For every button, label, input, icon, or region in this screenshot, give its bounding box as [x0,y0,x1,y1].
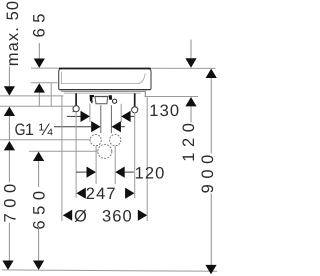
dim 700: line below text [8,223,10,261]
wire: left extension line at flange bottom (max.50 lower ref) [0,95,64,97]
drain fitting: flange trapezoid [95,97,108,104]
wire: right extension line at lower step (130 bottom ref) [145,96,199,98]
washbasin bottom edge [60,89,151,91]
washbasin right edge [148,69,151,90]
dim fitting-width: right tail [131,115,135,117]
hook right: eye circle [132,107,138,113]
wire: floor line [2,270,217,271]
svg-text:120: 120 [135,165,166,183]
dim 900: up arrowhead at rim line [206,69,217,78]
svg-text:6 5: 6 5 [31,13,49,37]
dim 700: up arrowhead at faucet line [4,141,15,150]
hook left: eye circle [73,106,79,112]
washbasin mounting flange line 2 [64,92,141,94]
dim 900: down arrowhead at floor [205,265,216,274]
svg-text:247: 247 [86,185,117,203]
dim 650: down arrowhead at floor [33,261,44,270]
extension line from basin right down [146,97,148,222]
dim 120 vertical: line below arrow [190,106,192,122]
dim max.50: line below text [8,67,10,87]
wire: left extension line at hook level [0,105,73,107]
faucet hole circle right (dashed) [110,135,121,146]
dim 650: line below text [38,227,40,261]
hook left: rod [75,93,77,106]
dim 120 (hole spacing): left tail [76,171,86,173]
dim max.50: down arrowhead [4,86,15,95]
drain fitting: left clip [90,95,94,101]
extension line from right faucet hole [114,146,116,184]
dim diameter 360: right arrowhead [138,210,147,221]
drain hole circle (dashed) [98,144,112,158]
dim 65: line below text [38,43,40,59]
dim 120: left arrowhead [87,166,96,177]
extension line from right hook down [134,113,136,198]
dim diameter 360: left arrowhead [63,210,72,221]
dim pipe: right tail [121,126,125,128]
dim 65: up arrowhead [34,83,45,92]
dim 650: line above text [38,161,40,187]
svg-text:9 0 0: 9 0 0 [199,154,217,193]
svg-text:1 2 0: 1 2 0 [180,123,198,162]
wire: top reference line (basin rim level) [31,67,216,69]
svg-text:6 5 0: 6 5 0 [31,190,49,229]
dim 700: line above text [8,150,10,182]
dim 700: down arrowhead at floor [2,261,13,270]
dim 130: top tail [190,40,192,59]
hook left: tail [73,111,74,112]
wire: faucet-hole centre line (left) [0,139,90,141]
washbasin body outline [59,69,62,90]
extension line from left faucet hole [95,146,97,184]
drain fitting: right hook eye [113,99,117,103]
svg-text:max. 50: max. 50 [4,0,22,66]
node: front lower edge extension line (left) [31,82,58,84]
dim 65: down arrowhead [34,59,45,68]
faucet hole circle left (dashed) [90,135,101,146]
wire: connector between front edge line and hook line [50,83,52,106]
extension line from basin left down [61,97,63,222]
dim 650: up arrowhead at drain line [33,152,44,161]
hook right: rod [134,93,136,106]
drain tailpipe wall left [100,105,102,133]
dim 247: right arrowhead [125,188,134,199]
dim fitting-width: right arrowhead [121,111,130,122]
dim 120: right tail [125,171,134,173]
dim 247: left arrowhead [76,188,85,199]
svg-text:1¼: 1¼ [25,121,53,139]
svg-text:7 0 0: 7 0 0 [2,183,20,222]
drain fitting: left clip spring tip [90,101,93,103]
dim fitting-width: left arrowhead [81,111,90,122]
washbasin inner bowl profile [61,72,145,84]
leader from G 1 1/4 to drain pipe [54,126,91,128]
svg-text:130: 130 [149,102,180,120]
dim pipe: left arrowhead [91,121,100,132]
dim pipe: right arrowhead [112,121,121,132]
extension line for fitting width left [89,104,91,122]
wire: drain centre line (left) [29,150,98,152]
washbasin right lower step [144,91,146,97]
dim 130: down arrowhead at rim line [185,58,196,67]
dim fitting-width: left tail [67,115,81,117]
drain tailpipe wall right [110,105,112,133]
washbasin mounting flange line 1 [61,90,145,92]
dim 65: tail to hook line [38,93,40,107]
drain fitting: top cap bar [95,96,108,98]
washbasin rim top edge (thick) [59,68,151,70]
drain fitting: right clip [109,95,112,100]
extension line from left hook down [75,112,77,198]
extension line for fitting width right [120,104,122,122]
dim 120: right arrowhead [115,166,124,177]
svg-text:Ø360: Ø360 [74,207,133,225]
dim 900: line below text [210,193,212,265]
dim 130: up arrowhead at step line [185,97,196,106]
wire: left column between arrows [8,116,10,140]
dim max.50: up arrowhead (lower side) [4,107,15,116]
dim 900: line above text [210,78,212,153]
